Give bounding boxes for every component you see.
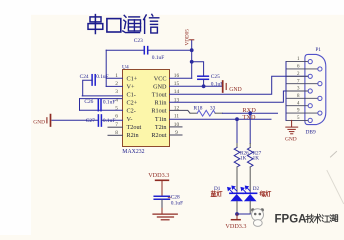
wire GND to C27 [52, 119, 98, 121]
svg-text:VCC: VCC [154, 75, 167, 82]
watermark CJK jiang [322, 215, 329, 222]
svg-text:1K: 1K [240, 156, 247, 162]
svg-text:C24: C24 [80, 74, 89, 80]
DB9 pin stubs [286, 62, 318, 121]
LED D1 [230, 193, 243, 201]
resistor R18 lead right [215, 112, 222, 114]
svg-text:MAX232: MAX232 [122, 149, 144, 155]
svg-text:0.1uF: 0.1uF [171, 201, 183, 207]
svg-text:T1out: T1out [152, 92, 167, 99]
wire R26 to D1 [236, 167, 238, 193]
svg-text:VDD3.3: VDD3.3 [148, 172, 169, 179]
svg-text:R2out: R2out [151, 132, 166, 139]
CJK label green-lamp [260, 191, 271, 197]
ground symbol at DB9 pin5 [286, 120, 298, 133]
capacitor C26 [98, 99, 101, 110]
capacitor C24 [92, 75, 95, 85]
wire C24 left jog [83, 80, 92, 96]
svg-text:C1+: C1+ [127, 75, 138, 82]
svg-text:V-: V- [127, 116, 133, 123]
svg-text:GND: GND [153, 83, 167, 90]
faint corner watermark diagonals [331, 152, 337, 158]
svg-text:FPGA: FPGA [275, 214, 307, 226]
wire pin5 row [80, 109, 123, 111]
wire pin1 row [106, 77, 122, 79]
capacitor C23 [144, 47, 147, 54]
watermark CJK ji (tech) [306, 214, 313, 222]
DB9 pin circles right column 6-9 [318, 67, 322, 115]
junction C25 branch [190, 60, 194, 64]
watermark CJK hu [330, 215, 338, 222]
title CJK chuan (serial) [88, 15, 103, 34]
title CJK tong [123, 15, 141, 32]
svg-text:D2: D2 [253, 186, 260, 192]
svg-text:T2out: T2out [127, 124, 142, 131]
LED D1 arrows [228, 186, 237, 192]
svg-text:C26: C26 [84, 99, 93, 105]
power port VDD3.3 above C28 [148, 172, 169, 196]
wire R1in pin13 to DB9 [170, 91, 309, 102]
svg-text:V+: V+ [127, 83, 135, 90]
wire R27 to D2 [249, 167, 251, 193]
wire pin6 stub [101, 119, 122, 121]
svg-text:0.1uF: 0.1uF [103, 118, 115, 124]
svg-text:1K: 1K [253, 156, 260, 162]
wire pin3 row [82, 95, 122, 97]
svg-text:6: 6 [115, 114, 118, 120]
title CJK kou (port) [107, 19, 121, 32]
CJK label blue-lamp [211, 191, 222, 197]
U4 pin 7 stub [108, 126, 123, 128]
wire T1out pin14 to DB9 [170, 76, 309, 94]
svg-text:P1: P1 [316, 47, 322, 53]
wire RXD net [223, 112, 278, 114]
power port VDD05 [185, 29, 194, 79]
svg-text:C23: C23 [134, 38, 143, 44]
wire C28 to ground [161, 199, 163, 208]
wire D2 cathode down [249, 201, 251, 214]
wire D1 cathode down [236, 201, 238, 214]
junction C25 to pin15 [202, 84, 206, 88]
wire RXD down to R27 [249, 113, 251, 143]
svg-text:R1in: R1in [154, 100, 166, 107]
svg-text:T1in: T1in [155, 116, 167, 123]
wire C25 bottom to GND row [203, 79, 205, 86]
LED D2 [243, 193, 256, 201]
svg-text:GND: GND [33, 120, 45, 126]
resistor R26 [234, 148, 240, 168]
junction C23/VDD rail [190, 48, 194, 52]
capacitor C28 [154, 196, 169, 199]
svg-text:C2+: C2+ [127, 100, 138, 107]
junction RXD branch [248, 111, 252, 115]
LED D2 arrows [241, 186, 250, 192]
U4 pin 10 stub [170, 126, 183, 128]
svg-text:T2in: T2in [155, 124, 167, 131]
wire join LEDs bottom [237, 213, 250, 215]
watermark CJK shu [314, 214, 321, 223]
wire pin2 stub from C23 drop [106, 85, 122, 87]
op-amp/transceiver U4 MAX232 body [123, 70, 170, 147]
svg-text:C27: C27 [86, 118, 95, 124]
svg-text:0.1uF: 0.1uF [103, 99, 115, 105]
resistor R18 lead left [190, 112, 197, 114]
resistor R27 [247, 148, 253, 168]
ground symbol below C28 [153, 214, 177, 220]
svg-text:33: 33 [210, 106, 216, 112]
svg-text:GND: GND [229, 87, 242, 93]
wire C26 left vertical [79, 99, 81, 111]
U4 left pin names [127, 75, 142, 139]
U4 pin 9 stub [170, 134, 183, 136]
resistor R18 [197, 110, 215, 116]
svg-text:VDD3.3: VDD3.3 [225, 223, 246, 230]
U4 pin 8 stub [108, 134, 123, 136]
U4 right pin numbers 16-9 [174, 73, 180, 136]
DB9 pin numbers [297, 57, 300, 121]
wire GND pin15 row [170, 85, 222, 87]
wire C23 vertical drop to V+ [105, 50, 107, 86]
power ground GND right of C25 [223, 81, 242, 93]
wire TXD down to R26 [236, 119, 238, 143]
watermark panda logo [251, 208, 264, 226]
svg-text:0.1uF: 0.1uF [152, 55, 164, 61]
wire VCC pin16 [170, 77, 192, 79]
svg-text:R2in: R2in [127, 132, 139, 139]
power port VDD3.3 bottom right [225, 214, 246, 230]
U4 right pin names [151, 75, 167, 139]
connector P1 DB9 body [305, 54, 326, 124]
junction TXD branch [235, 117, 239, 121]
title CJK xin [144, 14, 159, 33]
C28 pin tick [168, 197, 170, 199]
svg-text:0.1uF: 0.1uF [96, 74, 108, 80]
U4 left pin numbers 1-8 [115, 73, 118, 136]
svg-text:C2-: C2- [127, 108, 136, 115]
capacitor C25 [198, 76, 209, 79]
junction LED join [235, 212, 239, 216]
svg-text:U4: U4 [122, 64, 129, 70]
wire R1out pin12 to R18 [170, 110, 191, 113]
wire top V+ to VCC rail [106, 49, 192, 51]
DB9 pin circles left column 1-5 [308, 60, 312, 123]
svg-text:TXD: TXD [242, 114, 256, 121]
svg-text:DB9: DB9 [306, 130, 316, 136]
DB9 bus vertical joining pins [285, 62, 287, 121]
wire C25 branch top [192, 62, 204, 76]
svg-text:3: 3 [115, 89, 118, 95]
svg-text:C28: C28 [171, 195, 180, 201]
wire pin4 row [80, 98, 123, 100]
svg-text:VDD05: VDD05 [185, 29, 191, 46]
svg-text:C25: C25 [211, 74, 220, 80]
svg-text:C1-: C1- [127, 92, 136, 99]
wire TXD net from pin11 [170, 118, 272, 120]
power ground GND left [33, 115, 50, 126]
capacitor C27 [98, 115, 101, 126]
svg-text:R1out: R1out [151, 108, 166, 115]
svg-text:R18: R18 [194, 106, 203, 112]
svg-text:GND: GND [285, 136, 297, 142]
